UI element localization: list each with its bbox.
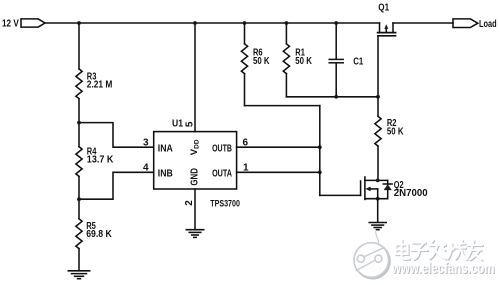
label Q1 bbox=[378, 2, 389, 13]
transistor Q2 (N-ch MOSFET 2N7000) bbox=[361, 177, 393, 199]
svg-text:U1: U1 bbox=[172, 118, 183, 129]
node rail-R3 junction bbox=[77, 21, 81, 25]
pin number 3 bbox=[143, 137, 149, 148]
transistor Q1 (P-ch MOSFET) bbox=[378, 23, 396, 36]
label R2 value bbox=[387, 118, 404, 137]
watermark text chinese bbox=[396, 240, 484, 261]
wire R3 to R4 bbox=[78, 99, 80, 147]
svg-text:INA: INA bbox=[158, 143, 173, 154]
wire left rail top bbox=[78, 23, 80, 69]
ground (below Q2) bbox=[369, 223, 386, 230]
pin number 2 (rotated) bbox=[184, 200, 195, 206]
svg-text:3: 3 bbox=[143, 137, 149, 148]
svg-text:INB: INB bbox=[158, 168, 173, 179]
pin number 6 bbox=[243, 137, 249, 148]
svg-text:5: 5 bbox=[185, 121, 196, 127]
svg-text:4: 4 bbox=[143, 162, 149, 173]
wire junction to pin4 INB bbox=[79, 172, 154, 199]
wire outputs vertical rail bbox=[319, 106, 321, 196]
node Q2 drain junction bbox=[376, 179, 380, 183]
resistor R6 bbox=[241, 23, 247, 106]
pin number 1 bbox=[243, 162, 249, 173]
pin label INB bbox=[158, 168, 173, 179]
wire junction to pin3 INA bbox=[79, 123, 154, 148]
wire R1/C1 bottoms to Q1 gate bbox=[286, 96, 378, 98]
label C1 bbox=[353, 57, 363, 68]
svg-text:69.8 K: 69.8 K bbox=[86, 229, 112, 240]
wire R5 to ground bbox=[78, 249, 80, 271]
pin label GND (rotated) bbox=[190, 168, 201, 186]
node rail-R1 junction bbox=[285, 21, 289, 25]
pin label OUTA bbox=[212, 168, 232, 179]
resistor R3 bbox=[76, 69, 82, 99]
node OUTB junction bbox=[318, 145, 322, 149]
wire pin1 OUTA bbox=[237, 171, 320, 173]
connector Load output bbox=[453, 19, 478, 28]
svg-text:12 V: 12 V bbox=[2, 18, 19, 29]
label R1 value bbox=[295, 48, 312, 68]
label R6 value bbox=[253, 48, 270, 68]
svg-text:50 K: 50 K bbox=[295, 56, 312, 67]
label TPS3700 bbox=[210, 199, 240, 210]
svg-text:2.21 M: 2.21 M bbox=[87, 80, 113, 91]
svg-text:C1: C1 bbox=[353, 57, 363, 68]
svg-text:50 K: 50 K bbox=[387, 126, 404, 137]
svg-text:Load: Load bbox=[479, 19, 497, 30]
op-amp U1 TPS3700 box bbox=[154, 132, 237, 189]
node gate/R1/C1/R2 junction bbox=[376, 95, 380, 99]
pin number 5 (rotated) bbox=[185, 121, 196, 127]
wire pin2 GND down bbox=[194, 189, 196, 229]
capacitor C1 bbox=[329, 23, 343, 97]
wire top rail right of Q1 bbox=[393, 22, 453, 24]
svg-text:www.elecfans.com: www.elecfans.com bbox=[391, 261, 494, 277]
label R4 value bbox=[87, 146, 114, 165]
svg-text:OUTB: OUTB bbox=[212, 143, 232, 154]
svg-text:50 K: 50 K bbox=[253, 56, 270, 67]
wire R6 bottom to outputs rail bbox=[245, 105, 320, 107]
wire pin5 VDD to rail bbox=[194, 23, 196, 132]
ground (below R5) bbox=[68, 271, 89, 279]
svg-text:OUTA: OUTA bbox=[212, 168, 232, 179]
svg-text:GND: GND bbox=[190, 168, 201, 186]
ground (below U1) bbox=[186, 230, 203, 238]
net label Load bbox=[479, 19, 497, 30]
connector 12V input bbox=[21, 19, 45, 27]
node rail-R6 junction bbox=[243, 21, 247, 25]
pin label OUTB bbox=[212, 143, 232, 154]
wire pin6 OUTB bbox=[237, 146, 320, 148]
label R5 value bbox=[86, 221, 112, 240]
pin label INA bbox=[158, 143, 173, 154]
wire R4 to R5 bbox=[78, 176, 80, 218]
wire Q1 gate lead down bbox=[377, 36, 379, 97]
net label 12V bbox=[2, 18, 19, 29]
wire 12V top rail (left of Q1) bbox=[45, 22, 380, 24]
svg-text:TPS3700: TPS3700 bbox=[210, 199, 240, 210]
label R3 value bbox=[87, 71, 113, 90]
node rail-C1 junction bbox=[334, 21, 338, 25]
svg-text:2: 2 bbox=[184, 200, 195, 206]
svg-text:13.7 K: 13.7 K bbox=[87, 155, 114, 166]
resistor R5 bbox=[76, 219, 82, 249]
resistor R4 bbox=[76, 147, 82, 177]
svg-text:Q1: Q1 bbox=[378, 2, 389, 13]
node OUTA junction bbox=[318, 170, 322, 174]
node C1 bottom junction bbox=[334, 95, 338, 99]
resistor R1 bbox=[283, 23, 289, 97]
node Q2 source junction bbox=[376, 197, 380, 201]
wire to Q2 gate bbox=[320, 194, 361, 196]
watermark text url bbox=[391, 261, 495, 278]
label U1 bbox=[172, 118, 183, 129]
pin label VDD (rotated) bbox=[189, 139, 201, 155]
label Q2 value bbox=[394, 180, 428, 199]
node R4/R5/INB junction bbox=[77, 197, 81, 201]
node rail-pin5 junction bbox=[193, 21, 197, 25]
resistor R2 bbox=[375, 97, 381, 181]
node R3/R4/INA junction bbox=[77, 121, 81, 125]
wire Q2 source to ground bbox=[377, 199, 379, 223]
pin number 4 bbox=[143, 162, 149, 173]
svg-text:2N7000: 2N7000 bbox=[394, 188, 428, 199]
watermark logo elecfans bbox=[354, 231, 390, 279]
